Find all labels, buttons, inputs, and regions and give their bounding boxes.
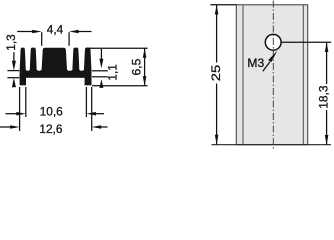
svg-text:1,3: 1,3 xyxy=(4,34,18,50)
arrow tail right xyxy=(95,113,105,115)
extension line right xyxy=(68,32,70,46)
inner edge left xyxy=(242,5,244,144)
M3 leader line xyxy=(263,62,270,71)
arrowhead 18,3 up xyxy=(325,42,329,52)
dim line lower xyxy=(216,84,218,145)
left foot xyxy=(20,75,26,85)
svg-text:25: 25 xyxy=(209,65,223,82)
fin 4 xyxy=(72,48,79,71)
inner edge right xyxy=(302,5,304,144)
M3 leader arrowhead xyxy=(268,51,277,63)
svg-text:M3: M3 xyxy=(247,56,264,70)
arrowhead 6,5 up xyxy=(143,48,147,58)
arrowhead 12,6 left xyxy=(10,125,20,129)
arrowhead 4,4 left xyxy=(32,30,42,34)
arrowhead 1,1 up xyxy=(99,79,103,88)
arrowhead 25 up xyxy=(215,5,219,15)
extension line from hole xyxy=(281,41,331,43)
top extension line xyxy=(210,4,236,6)
extension line top xyxy=(86,47,148,49)
arrow tail left xyxy=(17,31,34,33)
dim line above xyxy=(13,52,15,63)
extension line left xyxy=(41,32,43,46)
svg-text:12,6: 12,6 xyxy=(39,122,62,136)
extension line bottom xyxy=(92,85,148,87)
extension line left xyxy=(25,87,27,117)
mounting hole M3 xyxy=(265,34,281,50)
arrow tail right xyxy=(100,126,108,128)
arrow tail left xyxy=(0,126,12,128)
dimension 4,4 (top) xyxy=(17,32,91,46)
svg-text:6,5: 6,5 xyxy=(129,59,143,76)
extension line right xyxy=(91,87,93,131)
arrowhead 1,3 down xyxy=(12,61,16,71)
right foot xyxy=(85,75,92,85)
slot 2 rounded bottom xyxy=(37,58,42,71)
dimension 1,3 (left side) xyxy=(7,52,19,77)
extension line upper xyxy=(7,70,19,72)
slot 1 rounded bottom xyxy=(26,58,30,71)
bottom edge line xyxy=(212,144,332,146)
dimension 10,6 (bottom, inner) xyxy=(6,87,105,117)
arrowhead 12,6 right xyxy=(92,125,102,129)
arrow tail left xyxy=(6,113,18,115)
dim line upper xyxy=(216,5,218,63)
extension line right xyxy=(85,87,87,117)
dimension 6,5 (far right of profile) xyxy=(86,48,148,85)
base slab xyxy=(20,70,92,78)
svg-text:1,1: 1,1 xyxy=(105,64,119,80)
arrowhead 10,6 left xyxy=(16,112,26,116)
dim line below xyxy=(100,84,102,87)
fin 2 xyxy=(30,48,37,71)
extension line lower xyxy=(7,77,19,79)
dimension 12,6 (bottom, outer) xyxy=(0,87,108,131)
arrowhead 6,5 down xyxy=(143,76,147,86)
arrowhead 25 down xyxy=(215,135,219,145)
dimension 18,3 (right of front view) xyxy=(281,42,331,144)
extension line lower xyxy=(92,76,108,78)
svg-text:10,6: 10,6 xyxy=(40,105,63,119)
heatsink extrusion profile (side view, black silhouette) xyxy=(20,48,92,86)
fin 1 xyxy=(20,48,26,71)
dim line upper xyxy=(326,42,328,84)
dimension 25 (left of front view) xyxy=(216,5,218,145)
arrowhead 1,3 up xyxy=(12,78,16,88)
extension line left xyxy=(19,87,21,131)
svg-text:4,4: 4,4 xyxy=(47,22,63,36)
slot 4 rounded bottom xyxy=(79,58,84,71)
svg-text:18,3: 18,3 xyxy=(316,85,330,108)
center block xyxy=(42,48,68,71)
fin 5 xyxy=(84,48,92,71)
extension line upper xyxy=(92,70,108,72)
slot 3 rounded bottom xyxy=(67,58,72,71)
dimension 1,1 (right of profile) xyxy=(92,49,108,86)
arrow tail right xyxy=(77,31,92,33)
arrowhead 1,1 down xyxy=(99,59,103,68)
arrowhead 10,6 right xyxy=(86,112,96,116)
arrowhead 4,4 right xyxy=(69,30,79,34)
arrowhead 18,3 down xyxy=(325,135,329,145)
centerline xyxy=(272,1,274,150)
front view body xyxy=(236,5,307,145)
dim line xyxy=(144,48,146,85)
dim line above xyxy=(100,49,102,61)
dim line lower xyxy=(326,110,328,145)
